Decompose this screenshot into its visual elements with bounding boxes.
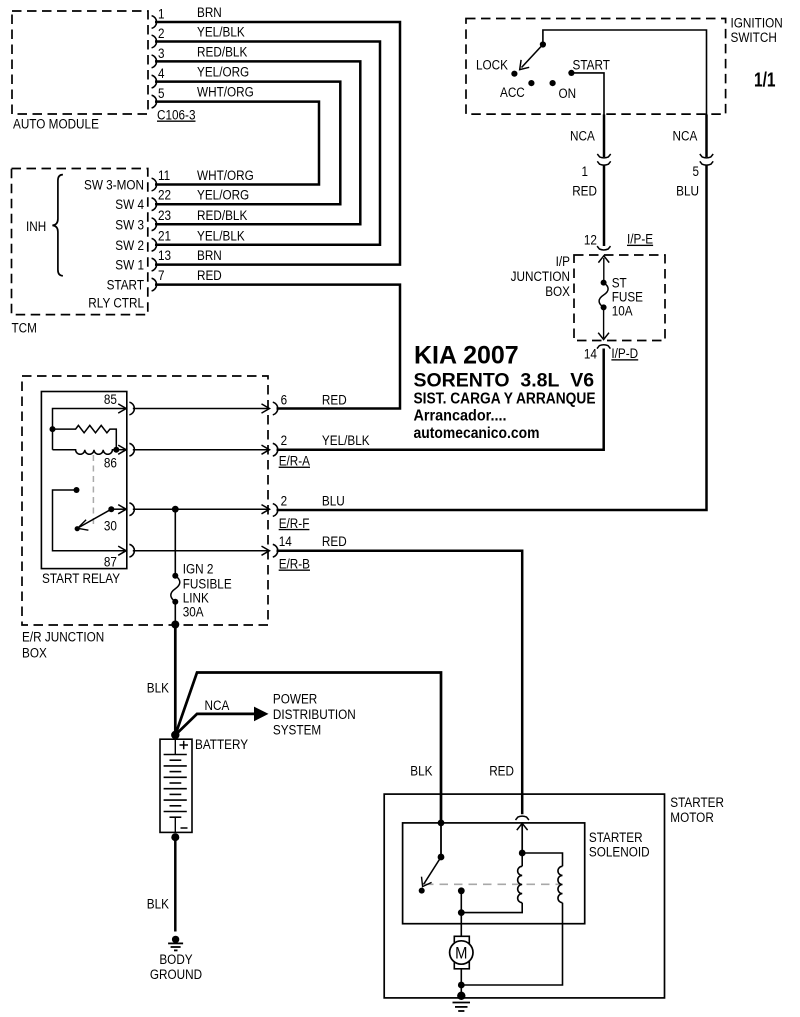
svg-text:FUSIBLE: FUSIBLE — [183, 576, 232, 591]
svg-text:SW 2: SW 2 — [115, 238, 144, 253]
ignition ACC contact — [500, 80, 535, 100]
svg-text:7: 7 — [158, 268, 165, 283]
svg-text:21: 21 — [158, 228, 171, 243]
svg-text:Arrancador....: Arrancador.... — [414, 408, 507, 425]
wire relay 86 to E/R-A — [133, 445, 270, 454]
svg-text:START RELAY: START RELAY — [42, 571, 120, 586]
wire RED/BLK pin3 to SW3 — [155, 44, 360, 224]
relay switch contact — [53, 487, 127, 551]
svg-text:DISTRIBUTION: DISTRIBUTION — [273, 707, 356, 722]
TCM pin 13 SW 1 — [115, 248, 171, 273]
TCM pin 11 SW 3-MON — [84, 168, 170, 192]
motor branch node — [458, 887, 465, 936]
svg-text:AUTO MODULE: AUTO MODULE — [13, 117, 99, 132]
wire WHT/ORG pin5 to SW3-MON — [155, 85, 319, 185]
svg-text:SYSTEM: SYSTEM — [273, 723, 321, 738]
svg-text:2: 2 — [281, 433, 288, 448]
start relay box — [41, 392, 126, 587]
svg-text:WHT/ORG: WHT/ORG — [197, 85, 254, 100]
wire YEL/BLK I/P-D to E/R-A — [277, 349, 604, 450]
E/R pin 6 RED — [273, 393, 347, 415]
TCM pin 7 START RLY CTRL — [88, 268, 164, 311]
svg-text:SIST. CARGA Y ARRANQUE: SIST. CARGA Y ARRANQUE — [414, 391, 596, 408]
svg-text:E/R-B: E/R-B — [279, 557, 310, 572]
svg-text:M: M — [455, 944, 467, 963]
svg-text:BLK: BLK — [147, 897, 169, 912]
svg-text:I/P: I/P — [556, 254, 570, 269]
wire motor to ground — [458, 969, 465, 998]
svg-text:BODY: BODY — [159, 952, 192, 967]
svg-text:RED/BLK: RED/BLK — [197, 208, 247, 223]
E/R junction box — [22, 376, 268, 660]
svg-text:SW 4: SW 4 — [115, 197, 144, 212]
ignition START contact — [568, 57, 610, 76]
wire YEL/ORG pin4 to SW4 — [155, 65, 340, 205]
relay pin 86 — [104, 443, 134, 470]
svg-text:KIA 2007: KIA 2007 — [414, 342, 519, 370]
svg-text:11: 11 — [158, 168, 170, 183]
E/R pin 14 E/R-B RED — [273, 534, 347, 571]
wire BLK battery to starter — [175, 673, 441, 824]
svg-text:22: 22 — [158, 188, 171, 203]
ignition switch box — [466, 16, 783, 115]
svg-text:YEL/BLK: YEL/BLK — [197, 228, 245, 243]
starter ground — [453, 992, 471, 1011]
svg-text:RED: RED — [322, 393, 347, 408]
body ground — [150, 936, 202, 982]
wire relay 30 to E/R-F — [133, 505, 270, 514]
ST fuse 10A — [599, 258, 643, 338]
junction node on pin30 wire — [172, 506, 179, 513]
solenoid plunger link — [425, 883, 561, 885]
wire BLU connector to E/R-F — [277, 164, 707, 510]
svg-text:ON: ON — [559, 86, 577, 101]
wire YEL/BLK pin2 to SW2 — [155, 25, 380, 245]
svg-text:JUNCTION: JUNCTION — [511, 269, 570, 284]
svg-text:3: 3 — [158, 46, 165, 61]
wire relay 85 to E/R pin6 — [133, 404, 270, 413]
svg-text:SW 3: SW 3 — [115, 217, 144, 232]
svg-text:I/P-D: I/P-D — [611, 346, 638, 361]
inline connector on BLU wire — [700, 154, 713, 165]
svg-text:5: 5 — [693, 164, 700, 179]
wire BLU ignition to connector — [673, 115, 707, 158]
svg-text:E/R-A: E/R-A — [279, 454, 310, 469]
svg-text:WHT/ORG: WHT/ORG — [197, 168, 254, 183]
svg-text:E/R-F: E/R-F — [279, 516, 310, 531]
starter motor box — [384, 794, 724, 998]
relay switch arm — [75, 506, 126, 531]
svg-text:SWITCH: SWITCH — [731, 30, 777, 45]
relay pin 85 — [104, 392, 134, 415]
BLK RED wire labels — [410, 763, 514, 778]
svg-text:SOLENOID: SOLENOID — [589, 844, 650, 859]
wire START to I/P-E — [570, 73, 604, 157]
auto module pin 4 — [152, 66, 165, 88]
svg-text:GROUND: GROUND — [150, 967, 202, 982]
wire BRN pin1 to SW1 — [155, 5, 400, 265]
TCM pin 23 SW 3 — [115, 208, 171, 233]
auto module pin 1 — [152, 7, 165, 29]
svg-text:NCA: NCA — [205, 698, 230, 713]
svg-text:30: 30 — [104, 519, 117, 534]
svg-text:BLK: BLK — [147, 680, 169, 695]
svg-text:13: 13 — [158, 248, 171, 263]
auto module pin 5 — [152, 86, 165, 108]
svg-text:30A: 30A — [183, 605, 204, 620]
E/R pin 2 E/R-A YEL/BLK — [273, 433, 370, 468]
svg-text:I/P-E: I/P-E — [627, 232, 653, 247]
ignition ON contact — [550, 80, 577, 101]
svg-text:BRN: BRN — [197, 5, 222, 20]
svg-text:SORENTO 3.8L V6: SORENTO 3.8L V6 — [414, 369, 595, 391]
wire RED E/R-B to starter solenoid — [277, 551, 523, 815]
svg-text:14: 14 — [584, 347, 598, 362]
svg-text:RED: RED — [322, 534, 347, 549]
svg-text:RED: RED — [572, 184, 597, 199]
svg-text:FUSE: FUSE — [612, 289, 643, 304]
TCM box — [12, 169, 148, 336]
svg-text:2: 2 — [281, 494, 288, 509]
svg-text:BATTERY: BATTERY — [195, 737, 248, 752]
svg-text:87: 87 — [104, 555, 117, 570]
svg-text:ST: ST — [612, 275, 627, 290]
solenoid hold-in coil — [461, 853, 562, 985]
svg-text:ACC: ACC — [500, 85, 525, 100]
svg-text:BOX: BOX — [22, 645, 47, 660]
relay coil winding — [53, 447, 127, 455]
solenoid pull-in coil — [461, 853, 522, 913]
svg-text:IGN 2: IGN 2 — [183, 562, 214, 577]
auto module box — [12, 11, 148, 132]
wire RED pin7 to E/R pin6 — [155, 268, 400, 408]
I/P junction box — [511, 254, 665, 341]
battery — [160, 737, 248, 832]
svg-text:STARTER: STARTER — [670, 795, 724, 810]
svg-text:23: 23 — [158, 208, 171, 223]
relay pin 87 — [104, 544, 134, 569]
TCM pin 21 SW 2 — [115, 228, 171, 253]
title block — [414, 342, 596, 443]
solenoid switch — [419, 820, 445, 894]
svg-text:YEL/BLK: YEL/BLK — [197, 25, 245, 40]
E/R pin 2 E/R-F BLU — [273, 494, 345, 531]
svg-text:SW 3-MON: SW 3-MON — [84, 177, 144, 192]
svg-text:MOTOR: MOTOR — [670, 810, 714, 825]
svg-text:BLU: BLU — [322, 494, 345, 509]
connector I/P-E pin 12 — [584, 232, 653, 263]
connector I/P-D pin 14 — [584, 333, 639, 362]
wire BLK battery to body ground — [147, 833, 180, 931]
svg-text:86: 86 — [104, 456, 117, 471]
relay coil resistor — [50, 409, 127, 450]
wire RED connector to I/P junction — [572, 164, 604, 246]
svg-text:BLK: BLK — [410, 763, 432, 778]
wire NCA to power distribution — [175, 691, 355, 737]
svg-text:IGNITION: IGNITION — [731, 16, 783, 31]
INH bracket — [26, 175, 63, 276]
svg-text:14: 14 — [279, 534, 293, 549]
svg-text:C106-3: C106-3 — [157, 108, 196, 123]
svg-text:6: 6 — [281, 393, 288, 408]
starter solenoid box — [403, 823, 650, 924]
svg-text:1/1: 1/1 — [754, 70, 776, 92]
svg-text:LINK: LINK — [183, 591, 209, 606]
svg-text:5: 5 — [158, 86, 165, 101]
svg-text:TCM: TCM — [12, 321, 37, 336]
svg-text:2: 2 — [158, 26, 165, 41]
inline connector on RED wire — [597, 154, 610, 165]
svg-text:BOX: BOX — [545, 284, 570, 299]
relay pin 30 — [104, 503, 134, 534]
svg-text:RED: RED — [197, 268, 222, 283]
ignition LOCK contact — [476, 57, 518, 76]
svg-text:BLU: BLU — [676, 184, 699, 199]
svg-text:automecanico.com: automecanico.com — [414, 425, 540, 442]
svg-text:RED/BLK: RED/BLK — [197, 44, 247, 59]
wire BLK E/R box to battery — [147, 625, 180, 740]
svg-text:NCA: NCA — [570, 129, 595, 144]
motor M — [450, 936, 473, 969]
svg-text:1: 1 — [582, 164, 589, 179]
svg-text:RLY CTRL: RLY CTRL — [88, 296, 144, 311]
svg-text:1: 1 — [158, 7, 165, 22]
auto module pin 2 — [152, 26, 165, 48]
svg-text:START: START — [573, 57, 610, 72]
svg-text:RED: RED — [489, 763, 514, 778]
svg-text:NCA: NCA — [673, 129, 698, 144]
svg-text:INH: INH — [26, 219, 46, 234]
relay mechanical link — [92, 455, 94, 528]
solenoid RED terminal connector — [516, 816, 529, 856]
ignition switch internals — [520, 30, 707, 115]
auto module pin 3 — [152, 46, 165, 68]
svg-text:12: 12 — [584, 233, 597, 248]
svg-text:STARTER: STARTER — [589, 830, 643, 845]
svg-text:SW 1: SW 1 — [115, 258, 144, 273]
svg-text:BRN: BRN — [197, 248, 222, 263]
svg-text:E/R JUNCTION: E/R JUNCTION — [22, 629, 104, 644]
wire relay 87 to E/R-B — [133, 546, 270, 555]
svg-text:POWER: POWER — [273, 691, 318, 706]
TCM pin 22 SW 4 — [115, 188, 171, 213]
svg-text:85: 85 — [104, 392, 117, 407]
svg-text:START: START — [107, 277, 144, 292]
svg-text:YEL/BLK: YEL/BLK — [322, 433, 370, 448]
svg-text:YEL/ORG: YEL/ORG — [197, 65, 249, 80]
fusible link IGN 2 30A — [171, 509, 232, 628]
svg-text:10A: 10A — [612, 303, 633, 318]
svg-text:4: 4 — [158, 66, 165, 81]
svg-text:YEL/ORG: YEL/ORG — [197, 188, 249, 203]
svg-text:LOCK: LOCK — [476, 57, 508, 72]
